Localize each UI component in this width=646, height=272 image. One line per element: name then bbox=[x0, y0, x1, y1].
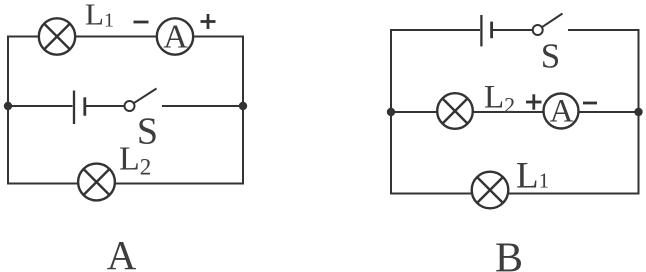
polarity minus sign (circuit A ammeter left) bbox=[134, 21, 149, 24]
lamp L1 (circuit B bottom branch) bbox=[472, 172, 509, 209]
wire: B left rail bbox=[390, 29, 392, 195]
ammeter A1 (circuit A top branch) bbox=[157, 18, 193, 54]
polarity minus sign (circuit B ammeter right) bbox=[583, 102, 597, 105]
node dot left (circuit A) bbox=[4, 102, 12, 110]
wire: B top battery to switch bbox=[493, 29, 533, 31]
polarity plus sign (circuit B ammeter left) bbox=[526, 94, 542, 109]
lamp L1 (circuit A top branch) bbox=[39, 18, 75, 54]
node dot right (circuit A) bbox=[239, 102, 247, 110]
wire: A middle branch right (switch to node) bbox=[162, 105, 243, 107]
wire: A bottom-left segment bbox=[8, 183, 78, 185]
wire: B top-right segment (switch to corner) bbox=[568, 29, 639, 31]
wire: B bottom-right segment bbox=[509, 193, 639, 195]
wire: A middle branch left (node to battery) bbox=[8, 105, 73, 107]
svg-text:S: S bbox=[541, 37, 560, 76]
wire: A right rail bbox=[242, 36, 244, 185]
svg-text:A: A bbox=[163, 18, 188, 55]
wire: A bottom-right segment bbox=[115, 183, 243, 185]
svg-text:S: S bbox=[137, 111, 158, 153]
svg-text:A: A bbox=[107, 232, 137, 272]
wire: B middle branch right (ammeter to node) bbox=[579, 111, 639, 113]
svg-text:B: B bbox=[495, 236, 523, 272]
switch S (circuit A) bbox=[125, 89, 157, 112]
wire: B top-left segment (corner to battery) bbox=[391, 29, 480, 31]
wire: A top middle segment (lamp L1 to ammeter) bbox=[74, 36, 158, 38]
battery (circuit A, short plate) bbox=[83, 97, 86, 115]
wire: B bottom-left segment bbox=[391, 193, 472, 195]
wire: A top-right segment (ammeter to corner) bbox=[192, 36, 243, 38]
wire: A left rail bbox=[7, 36, 9, 185]
battery (circuit A, long plate) bbox=[73, 91, 75, 125]
wire: B middle branch left (node to lamp L2) bbox=[391, 111, 437, 113]
wire: B middle branch lamp L2 to ammeter bbox=[472, 111, 543, 113]
wire: B right rail bbox=[638, 29, 640, 195]
lamp L2 (circuit B middle branch) bbox=[437, 93, 473, 129]
battery (circuit B, short plate) bbox=[490, 22, 493, 39]
wire: A top-left segment bbox=[8, 36, 40, 38]
lamp L2 (circuit A bottom branch) bbox=[78, 164, 115, 201]
switch S (circuit B) bbox=[533, 14, 563, 36]
node dot left (circuit B) bbox=[387, 108, 395, 116]
battery (circuit B, long plate) bbox=[480, 15, 482, 46]
polarity plus sign (circuit A ammeter right) bbox=[201, 14, 216, 29]
wire: A middle branch battery to switch bbox=[86, 105, 124, 107]
ammeter A2 (circuit B middle branch) bbox=[544, 94, 579, 129]
node dot right (circuit B) bbox=[634, 108, 642, 116]
svg-text:A: A bbox=[550, 94, 574, 130]
